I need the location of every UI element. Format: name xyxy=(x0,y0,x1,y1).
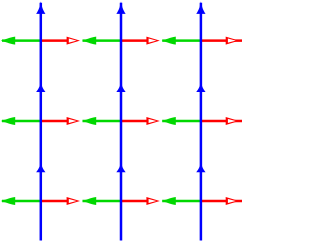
open red arrowhead row2 edge1 pointing right xyxy=(67,117,80,125)
green arrowhead row3 edge2 pointing left xyxy=(162,197,176,205)
wire: red segment row3 right edge xyxy=(201,200,242,203)
wire: blue vertical line col3 xyxy=(200,3,203,241)
green arrowhead row2 far-left pointing left xyxy=(1,117,15,125)
wire: red segment row3 col2-mid xyxy=(121,200,149,203)
blue arrowhead col1 mid1 pointing up xyxy=(36,82,45,92)
wire: red segment row3 col1-mid xyxy=(41,200,70,203)
green arrowhead row3 edge1 pointing left xyxy=(82,197,96,205)
open red arrowhead row3 far-right pointing right xyxy=(226,197,239,205)
wire: red segment row2 col1-mid xyxy=(41,120,70,123)
open red arrowhead row3 edge2 pointing right xyxy=(146,197,159,205)
blue arrowhead col1 top pointing up xyxy=(36,1,45,14)
blue arrowhead col3 mid2 pointing up xyxy=(196,162,205,172)
green arrowhead row2 edge2 pointing left xyxy=(162,117,176,125)
green arrowhead row2 edge1 pointing left xyxy=(82,117,96,125)
green arrowhead row1 edge2 pointing left xyxy=(162,37,176,45)
open red arrowhead row2 far-right pointing right xyxy=(226,117,239,125)
wire: red segment row1 col2-mid xyxy=(121,39,149,42)
open red arrowhead row3 edge1 pointing right xyxy=(67,197,80,205)
wire: blue vertical line col2 xyxy=(120,3,123,241)
wire: green segment row1 mid-col3 xyxy=(162,39,201,42)
wire: red segment row1 right edge xyxy=(201,39,242,42)
wire: red segment row1 col1-mid xyxy=(41,39,70,42)
wire: blue vertical line col1 xyxy=(40,3,43,241)
wire: green segment row3 mid-col2 xyxy=(83,200,122,203)
wire: green segment row1 left edge xyxy=(2,39,41,42)
wire: red segment row2 right edge xyxy=(201,120,242,123)
wire: red segment row2 col2-mid xyxy=(121,120,149,123)
blue arrowhead col3 mid1 pointing up xyxy=(196,82,205,92)
green arrowhead row3 far-left pointing left xyxy=(1,197,15,205)
green arrowhead row1 edge1 pointing left xyxy=(82,37,96,45)
blue arrowhead col3 top pointing up xyxy=(196,1,205,14)
wire: green segment row3 left edge xyxy=(2,200,41,203)
open red arrowhead row1 far-right pointing right xyxy=(226,37,239,45)
open red arrowhead row2 edge2 pointing right xyxy=(146,117,159,125)
open red arrowhead row1 edge2 pointing right xyxy=(146,37,159,45)
wire: green segment row2 mid-col3 xyxy=(162,120,201,123)
green arrowhead row1 far-left pointing left xyxy=(1,37,15,45)
blue arrowhead col2 mid2 pointing up xyxy=(116,162,125,172)
wire: green segment row2 left edge xyxy=(2,120,41,123)
blue arrowhead col2 top pointing up xyxy=(116,1,125,14)
wire: green segment row3 mid-col3 xyxy=(162,200,201,203)
blue arrowhead col1 mid2 pointing up xyxy=(36,162,45,172)
open red arrowhead row1 edge1 pointing right xyxy=(67,37,80,45)
blue arrowhead col2 mid1 pointing up xyxy=(116,82,125,92)
wire: green segment row1 mid-col2 xyxy=(83,39,122,42)
wire: green segment row2 mid-col2 xyxy=(83,120,122,123)
